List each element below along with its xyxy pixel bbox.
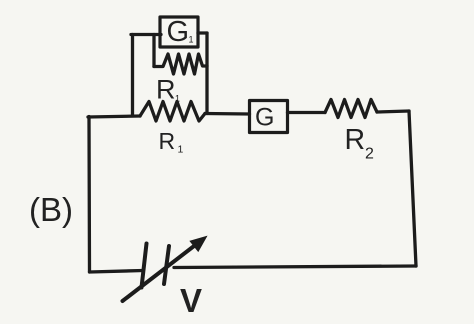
svg-text:R: R [156, 75, 176, 105]
battery plate long [142, 244, 147, 288]
resistor R2 [325, 100, 377, 118]
battery plate short [164, 246, 169, 284]
svg-text:1: 1 [178, 144, 184, 156]
svg-text:R: R [159, 128, 176, 154]
wire R1 to G [205, 112, 250, 116]
svg-text:2: 2 [365, 146, 374, 163]
svg-text:G: G [167, 16, 190, 48]
wire G1 right to vertical [198, 31, 207, 34]
svg-text:G: G [255, 104, 274, 132]
svg-text:1: 1 [189, 35, 194, 45]
galvanometer G1 (top box) [160, 17, 198, 47]
svg-text:1: 1 [175, 94, 180, 104]
galvanometer G (series box) [250, 101, 288, 133]
wire branch right vertical [205, 33, 208, 114]
resistor R1 [140, 102, 205, 122]
wire left vertical of main loop [87, 117, 91, 273]
wire G to R2 [288, 111, 326, 114]
variable source arrow [123, 245, 197, 302]
wire R2 to right corner [377, 111, 409, 112]
resistor R (shunt) [154, 54, 207, 74]
wire bottom right segment [174, 266, 416, 268]
svg-text:R: R [345, 124, 366, 156]
wire inner-left vertical [152, 35, 155, 67]
wire branch top horizontal [131, 33, 161, 36]
wire outer-left vertical of parallel branch [131, 35, 134, 116]
wire right vertical [409, 111, 416, 266]
svg-text:(B): (B) [29, 191, 73, 228]
wire top left segment [88, 116, 140, 117]
svg-text:V: V [180, 282, 202, 319]
wire bottom left segment [90, 271, 144, 273]
